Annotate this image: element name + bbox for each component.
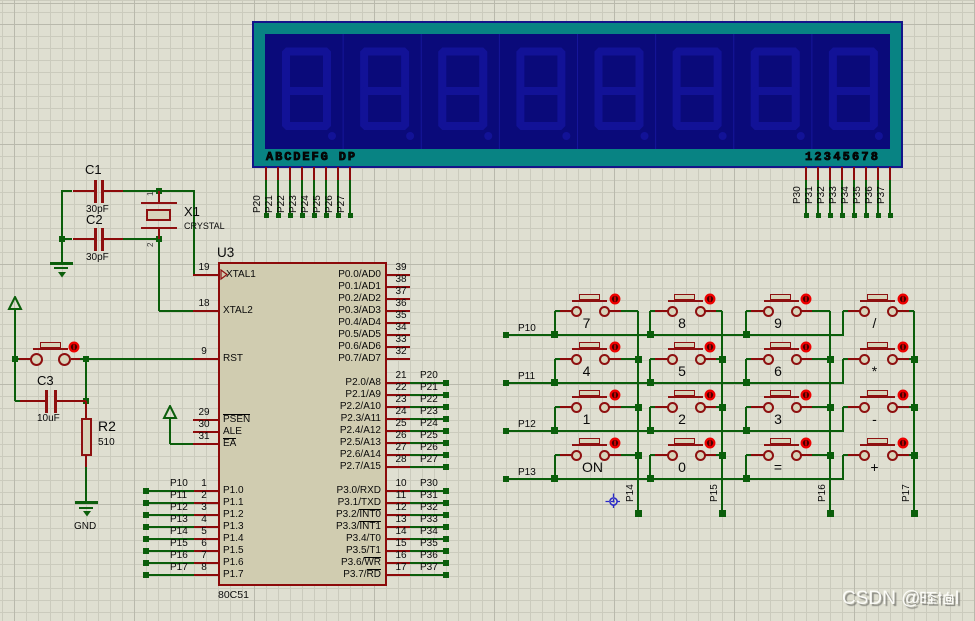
push button key 2 [649,407,651,431]
XTAL1 clock chevron [220,269,230,281]
8-digit 7-segment display module [252,21,903,168]
display pin P37 [889,167,891,180]
wire to XTAL2 [158,239,160,311]
pin RST (9) [193,358,218,360]
wire to XTAL1 [193,190,195,275]
keypad row net P11 [505,382,844,384]
pin P0.4/AD4 (35) [386,322,410,324]
pin P3.6 (16) with terminal P36 [386,562,410,564]
pin P2.6/A14 (27) with terminal P26 [386,454,410,456]
pin P3.0 (10) with terminal P30 [386,490,410,492]
pin P1.4 (5) with terminal P14 [193,538,218,540]
pin P3.4 (14) with terminal P34 [386,538,410,540]
wire button to RST pin [80,358,193,360]
push button key 1 [554,407,556,431]
pin P2.3/A11 (24) with terminal P23 [386,418,410,420]
power symbol VCC EA [161,405,179,421]
push button key ON [554,455,556,479]
pin P3.2 (12) with terminal P32 [386,514,410,516]
keypad column net P17 [913,311,915,514]
display segment labels ABCDEFG DP [266,150,357,164]
display pin P26 [337,167,339,180]
capacitor C1 [73,190,94,192]
push button key / [842,311,844,335]
push button key = [745,455,747,479]
pin P0.3/AD3 (36) [386,310,410,312]
pin P0.7/AD7 (32) [386,358,410,360]
wire R2 to ground [85,467,87,503]
capacitor C3 [15,400,20,402]
display pin P36 [877,167,879,180]
display pin P34 [853,167,855,180]
display pin P33 [841,167,843,180]
pin XTAL2 (18) [193,310,218,312]
display pin P23 [301,167,303,180]
pin P2.5/A13 (26) with terminal P25 [386,442,410,444]
keypad row net P10 [505,334,844,336]
pin P2.1/A9 (22) with terminal P21 [386,394,410,396]
pin P1.2 (3) with terminal P12 [193,514,218,516]
pin P1.0 (1) with terminal P10 [193,490,218,492]
pin P3.3 (13) with terminal P33 [386,526,410,528]
junction RST right [83,356,89,362]
pin P1.1 (2) with terminal P11 [193,502,218,504]
display pin P22 [289,167,291,180]
wire power to RST node [14,311,16,401]
push button key 9 [745,311,747,335]
display pin P30 [805,167,807,180]
wire power to EA [169,420,171,444]
pin P1.6 (7) with terminal P16 [193,562,218,564]
push button key 5 [649,359,651,383]
pin P0.1/AD1 (38) [386,286,410,288]
wire down to C3 [85,359,87,401]
pin P1.7 (8) with terminal P17 [193,574,218,576]
crystal X1 [158,191,160,203]
display pin P25 [325,167,327,180]
wire RST row left [15,358,20,360]
pin ALE (30) [193,431,218,433]
pin P0.6/AD6 (33) [386,346,410,348]
pin P2.2/A10 (23) with terminal P22 [386,406,410,408]
pin P3.7 (17) with terminal P37 [386,574,410,576]
push button key 6 [745,359,747,383]
push button key - [842,407,844,431]
wire C1-C2 left vertical [61,190,63,240]
pin P0.0/AD0 (39) [386,274,410,276]
display pin P31 [817,167,819,180]
junction crystal top [156,188,162,194]
display pin P32 [829,167,831,180]
push button key + [842,455,844,479]
power symbol VCC reset [6,296,24,312]
pin P0.5/AD5 (34) [386,334,410,336]
capacitor C2 [73,238,94,240]
display pin P21 [277,167,279,180]
junction at C2 left [59,236,65,242]
pin P1.3 (4) with terminal P13 [193,526,218,528]
push button key * [842,359,844,383]
keypad row net P13 [505,478,844,480]
watermark CSDN [842,588,960,610]
IC U3 80C51 body [218,262,387,586]
ground GND below R2 [75,501,98,504]
wire C1 to XTAL1 node [123,190,194,192]
ground below C2 [61,239,63,262]
junction C3 right [83,398,89,404]
pin P0.2/AD2 (37) [386,298,410,300]
push button key 0 [649,455,651,479]
pin P2.0/A8 (21) with terminal P20 [386,382,410,384]
display pin P24 [313,167,315,180]
push button key 8 [649,311,651,335]
push button RESET [19,358,31,360]
resistor R2 [85,401,87,418]
origin marker crosshair [605,493,622,510]
junction crystal bottom [156,236,162,242]
keypad column net P15 [721,311,723,514]
pin P2.4/A12 (25) with terminal P24 [386,430,410,432]
pin PSEN (29) [193,419,218,421]
keypad row net P12 [505,430,844,432]
pin EA (31) [193,443,218,445]
keypad column net P16 [829,311,831,514]
display pin P35 [865,167,867,180]
pin P2.7/A15 (28) with terminal P27 [386,466,410,468]
push button key 3 [745,407,747,431]
pin P3.1 (11) with terminal P31 [386,502,410,504]
display digit labels 12345678 [805,150,880,164]
display pin P27 [349,167,351,180]
wire C2 to crystal bottom [123,238,159,240]
pin P1.5 (6) with terminal P15 [193,550,218,552]
pin P3.5 (15) with terminal P35 [386,550,410,552]
junction RST left [12,356,18,362]
keypad column net P14 [637,311,639,514]
push button key 7 [554,311,556,335]
push button key 4 [554,359,556,383]
pin XTAL1 (19) [193,274,218,276]
display pin P20 [265,167,267,180]
